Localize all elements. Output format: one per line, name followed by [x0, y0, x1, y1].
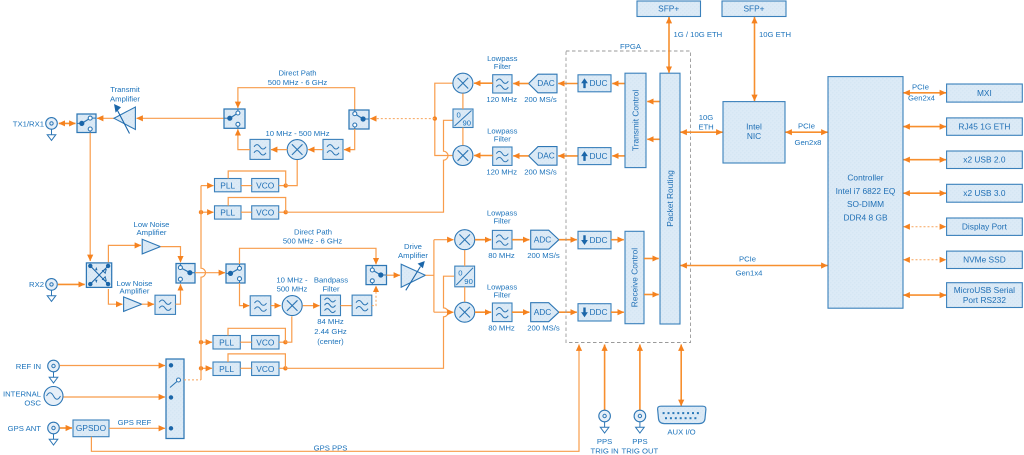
- Intel NIC block: [723, 102, 785, 163]
- wire Controller to NVMe SSD (dotted bidirectional): [904, 259, 947, 261]
- svg-text:DDC: DDC: [589, 235, 607, 245]
- wire Controller to MXI (bidirectional): [904, 92, 947, 94]
- wire REF IN to reference mux: [60, 365, 165, 367]
- wire SR1 to SR2: [195, 272, 225, 274]
- feedback loop D: [228, 354, 285, 368]
- wire ref to PLL D with junction: [199, 366, 212, 370]
- svg-text:RX2: RX2: [29, 280, 44, 289]
- svg-text:DriveAmplifier: DriveAmplifier: [398, 242, 428, 260]
- Transmit Control block: [625, 73, 646, 167]
- svg-text:LowpassFilter: LowpassFilter: [487, 127, 517, 144]
- wire DAC2 to F2: [513, 155, 528, 157]
- wire Packet Routing to Transmit Control lower: [647, 138, 660, 140]
- svg-text:x2 USB 3.0: x2 USB 3.0: [963, 188, 1006, 198]
- wire F1 to mixer TX I: [474, 82, 493, 84]
- wire PPS TRIG OUT to FPGA: [639, 345, 641, 411]
- PLL/VCO pair B: [215, 206, 279, 219]
- wire DUC1 to DAC1: [558, 83, 578, 85]
- wire VCO A to TX low band mixer LO: [286, 160, 298, 186]
- svg-text:Packet Routing: Packet Routing: [665, 170, 675, 227]
- wire Controller to Display Port (dotted bidirectional): [904, 226, 947, 228]
- port PPS TRIG IN connector: [599, 410, 611, 422]
- wire matrix to LNA1: [108, 245, 141, 262]
- svg-text:ADC: ADC: [534, 307, 552, 317]
- mixer TX low band: [287, 140, 307, 160]
- switch SR2 (RX band select): [226, 264, 245, 283]
- wire S3 to filter F3: [344, 129, 355, 150]
- svg-text:GPS PPS: GPS PPS: [314, 443, 348, 452]
- FPGA dashed boundary: [566, 51, 691, 343]
- TX IF combiner vertical with junction: [433, 83, 453, 155]
- NVMe SSD block: [947, 251, 1023, 268]
- GPSDO block: [73, 420, 109, 437]
- port PPS TRIG OUT connector: [634, 410, 646, 422]
- mixer TX Q: [453, 146, 473, 166]
- port REF IN connector: [16, 360, 60, 372]
- DUC 2: [578, 148, 611, 165]
- x2 USB 2.0 block: [947, 151, 1023, 169]
- svg-text:MicroUSB SerialPort RS232: MicroUSB SerialPort RS232: [954, 285, 1015, 305]
- svg-text:REF IN: REF IN: [16, 362, 41, 371]
- wire VCO A output with junction: [279, 183, 288, 187]
- svg-text:ADC: ADC: [534, 234, 552, 244]
- filter F7 (RX low band left): [250, 296, 271, 316]
- svg-text:PLL: PLL: [220, 180, 235, 190]
- svg-text:PLL: PLL: [220, 208, 235, 218]
- mixer RX Q: [455, 302, 475, 322]
- RX 0/90 phase splitter: [455, 266, 475, 287]
- wire SFP+1 to Packet Routing (bidirectional): [668, 17, 670, 73]
- svg-text:PLL: PLL: [219, 364, 234, 374]
- wire F8 to S5 bottom (dashed): [372, 286, 376, 306]
- wire bandpass filter to F8: [341, 305, 353, 307]
- wire TX 0/90 to mixer Q LO: [462, 128, 464, 146]
- port GPS ANT connector: [8, 422, 60, 434]
- svg-text:Receive Control: Receive Control: [630, 248, 640, 308]
- drive amplifier: [401, 261, 425, 290]
- DDC 2: [578, 304, 611, 321]
- feedback loop B: [228, 198, 286, 213]
- svg-text:PLL: PLL: [219, 337, 234, 347]
- svg-text:VCO: VCO: [256, 208, 275, 218]
- svg-text:GPS ANT: GPS ANT: [8, 424, 42, 433]
- feedback loop C: [228, 328, 285, 342]
- filter F9 (RX2 path): [155, 295, 176, 314]
- svg-text:10GETH: 10GETH: [698, 113, 713, 131]
- svg-text:Transmit Control: Transmit Control: [631, 90, 641, 152]
- svg-text:Low NoiseAmplifier: Low NoiseAmplifier: [134, 220, 170, 237]
- switch S3 (TX IF/direct select): [349, 110, 369, 129]
- svg-text:VCO: VCO: [256, 364, 275, 374]
- svg-text:LowpassFilter: LowpassFilter: [487, 209, 517, 226]
- svg-text:Low NoiseAmplifier: Low NoiseAmplifier: [117, 279, 153, 296]
- wire PPS TRIG IN to FPGA: [604, 345, 606, 411]
- svg-text:SFP+: SFP+: [658, 4, 679, 14]
- wire PLL A to VCO A: [241, 185, 252, 187]
- wire Receive Control to Packet Routing lower: [644, 294, 659, 296]
- wire S2 to transmit amplifier input: [137, 117, 225, 119]
- wire mixer RX I to F5: [475, 239, 491, 241]
- svg-text:DUC: DUC: [589, 151, 607, 161]
- svg-text:IntelNIC: IntelNIC: [746, 122, 762, 142]
- svg-text:TransmitAmplifier: TransmitAmplifier: [110, 85, 141, 104]
- svg-text:VCO: VCO: [256, 180, 275, 190]
- svg-text:PCIe: PCIe: [739, 255, 756, 264]
- svg-text:Display Port: Display Port: [962, 222, 1008, 232]
- wire AUX I/O to FPGA (bidirectional): [680, 345, 682, 407]
- wire matrix to LNA2: [108, 289, 122, 304]
- GPS PPS wire to FPGA: [91, 345, 579, 452]
- svg-text:200 MS/s: 200 MS/s: [527, 324, 560, 333]
- filter F6 (RX Q lowpass): [492, 303, 512, 322]
- svg-text:200 MS/s: 200 MS/s: [524, 168, 557, 177]
- filter F1 (TX I lowpass): [493, 75, 512, 93]
- switch S5 (RX IF/direct select): [366, 266, 387, 285]
- wire LNA2 to filter F9: [142, 303, 154, 305]
- Controller block: [828, 77, 903, 309]
- wire RX2 to matrix: [58, 283, 85, 285]
- svg-text:80 MHz: 80 MHz: [488, 251, 515, 260]
- wire splitter to mixer RX I: [434, 239, 454, 241]
- filter F2 (TX Q lowpass): [493, 147, 512, 165]
- PLL/VCO pair A: [215, 179, 279, 192]
- TX direct path wire S3 to S2: [238, 88, 355, 110]
- wire VCO C output with junction: [279, 340, 288, 344]
- DAC 1: [529, 74, 557, 93]
- PLL/VCO pair C: [213, 336, 279, 350]
- svg-text:LowpassFilter: LowpassFilter: [487, 54, 517, 71]
- wire S5 to drive amplifier: [387, 274, 401, 276]
- ground below REF IN: [49, 372, 58, 383]
- ground below PPS TRIG OUT: [636, 422, 645, 433]
- wire F5 to ADC1: [512, 239, 529, 241]
- switch SR1 (RX path select): [176, 264, 195, 284]
- svg-text:Direct Path500 MHz - 6 GHz: Direct Path500 MHz - 6 GHz: [268, 69, 328, 87]
- MXI block: [947, 84, 1023, 102]
- wire amplifier output to S1: [97, 117, 115, 119]
- svg-text:PCIe: PCIe: [798, 122, 815, 131]
- wire F6 to ADC2: [512, 311, 529, 313]
- PCIe Gen2x8 label: [795, 122, 822, 147]
- svg-text:VCO: VCO: [256, 337, 275, 347]
- port TX1/RX1 connector: [13, 118, 58, 130]
- svg-text:PPSTRIG IN: PPSTRIG IN: [591, 437, 619, 455]
- ground below PPS TRIG IN: [600, 422, 609, 433]
- svg-text:0: 0: [457, 111, 461, 120]
- wire S1 to RX matrix: [89, 133, 91, 261]
- svg-text:120 MHz: 120 MHz: [486, 95, 517, 104]
- wire Packet Routing to Transmit Control upper: [647, 101, 660, 103]
- switch S2 (TX band select): [224, 109, 245, 128]
- wire Packet Routing to Intel NIC (bidirectional): [681, 131, 723, 133]
- svg-text:10 MHz -500 MHz: 10 MHz -500 MHz: [276, 275, 308, 293]
- reference mux output (dashed): [184, 379, 201, 381]
- wire Packet Routing to Controller PCIe Gen1x4 (bidirectional): [681, 265, 828, 267]
- svg-text:200 MS/s: 200 MS/s: [524, 95, 557, 104]
- svg-text:TX1/RX1: TX1/RX1: [13, 119, 44, 128]
- TX IF wire to S3 (dashed): [370, 118, 435, 120]
- wire mixer RX Q to F6: [475, 311, 491, 313]
- wire RX 0/90 to mixer Q LO: [464, 287, 466, 302]
- wire LNA1 to switch SR1: [160, 247, 180, 263]
- ADC 2: [531, 303, 559, 322]
- Packet Routing block: [660, 73, 680, 324]
- svg-text:DAC: DAC: [537, 151, 555, 161]
- mixer TX I: [453, 73, 473, 93]
- svg-text:LowpassFilter: LowpassFilter: [487, 283, 517, 300]
- wire F4 to S2 bottom: [238, 129, 250, 149]
- DUC 1: [578, 75, 611, 92]
- wire F3 to TX low band mixer: [308, 149, 323, 151]
- wire PLL D to VCO D: [240, 367, 251, 369]
- SFP+ module 2: [722, 1, 786, 17]
- RX direct path wire SR2 to S5: [240, 248, 377, 264]
- svg-text:MXI: MXI: [977, 88, 992, 98]
- internal oscillator: [3, 387, 63, 408]
- wire Transmit Control to DUC1: [612, 83, 625, 85]
- port RX2 connector: [29, 279, 57, 291]
- ADC 1: [531, 230, 559, 249]
- bandpass filter: [321, 295, 341, 316]
- filter F4 (TX low band left): [250, 139, 270, 159]
- wire VCO D output with junction: [279, 366, 288, 370]
- svg-text:0: 0: [458, 269, 462, 278]
- wire F7 to RX low band mixer: [271, 305, 281, 307]
- wire ref to PLL C with junction: [199, 340, 212, 344]
- PCIe Gen1x4 label: [736, 255, 764, 278]
- svg-text:80 MHz: 80 MHz: [488, 324, 515, 333]
- svg-text:BandpassFilter: BandpassFilter: [314, 275, 348, 293]
- mixer RX I: [455, 230, 475, 250]
- wire VCO B to TX 0/90 splitter (with hop): [286, 120, 453, 212]
- RJ45 1G ETH block: [947, 118, 1023, 135]
- svg-text:NVMe SSD: NVMe SSD: [963, 255, 1006, 265]
- AUX I/O connector: [658, 406, 706, 423]
- Display Port block: [947, 218, 1023, 235]
- x2 USB 3.0 block: [947, 184, 1023, 202]
- svg-text:Gen2x4: Gen2x4: [908, 93, 936, 102]
- wire ADC2 to DDC2: [559, 311, 577, 313]
- svg-text:84 MHz2.44 GHz(center): 84 MHz2.44 GHz(center): [314, 317, 347, 346]
- reference distribution line (with hop over RX wire): [201, 186, 206, 380]
- RX splitter vertical: [425, 240, 434, 313]
- DAC 2: [529, 147, 557, 166]
- wire TX1/RX1 to switch S1 (bidirectional): [59, 122, 76, 124]
- wire Controller to USB 3.0 (bidirectional): [904, 192, 947, 194]
- svg-text:RJ45 1G ETH: RJ45 1G ETH: [958, 121, 1010, 131]
- wire VCO C to RX low band mixer LO: [285, 316, 291, 342]
- filter F8 (RX low band right): [352, 295, 372, 316]
- MicroUSB Serial Port RS232 block: [947, 283, 1023, 308]
- svg-text:DAC: DAC: [537, 78, 555, 88]
- wire DAC1 to F1: [513, 83, 528, 85]
- filter F3 (TX low band right): [323, 139, 343, 159]
- svg-text:Gen2x8: Gen2x8: [795, 138, 822, 147]
- ground below GPS ANT: [49, 434, 58, 445]
- wire DDC1 to Receive Control: [611, 239, 624, 241]
- svg-text:FPGA: FPGA: [620, 42, 642, 51]
- wire PLL C to VCO C: [240, 341, 251, 343]
- svg-text:DUC: DUC: [589, 78, 607, 88]
- wire PLL B to VCO B: [241, 211, 252, 213]
- wire VCO B output with junction: [279, 210, 288, 214]
- wire ADC1 to DDC1: [559, 239, 577, 241]
- DDC 1: [578, 231, 611, 249]
- svg-text:x2 USB 2.0: x2 USB 2.0: [963, 155, 1006, 165]
- wire DDC2 to Receive Control: [611, 311, 624, 313]
- wire Transmit Control to DUC2: [612, 155, 625, 157]
- wire mixer to bandpass filter: [303, 305, 320, 307]
- svg-text:90: 90: [464, 277, 473, 286]
- wire Intel NIC to Controller (bidirectional): [786, 131, 828, 133]
- transmit amplifier: [114, 104, 135, 134]
- RX transfer switch matrix: [86, 263, 111, 288]
- svg-text:AUX I/O: AUX I/O: [667, 428, 695, 437]
- wire DUC2 to DAC2: [558, 155, 578, 157]
- wire SR2 to filter F7: [240, 283, 250, 306]
- TX 0/90 phase splitter: [453, 109, 473, 128]
- svg-text:SFP+: SFP+: [743, 4, 764, 14]
- PLL/VCO pair D: [213, 362, 279, 376]
- svg-text:120 MHz: 120 MHz: [486, 168, 517, 177]
- wire Controller to USB 2.0 (bidirectional): [904, 159, 947, 161]
- svg-text:10 MHz - 500 MHz: 10 MHz - 500 MHz: [265, 129, 329, 138]
- wire ref to PLL B with junction: [199, 210, 214, 214]
- ground below RX2: [47, 290, 56, 301]
- feedback loop A: [228, 171, 286, 186]
- SFP+ module 1: [637, 1, 701, 17]
- svg-text:10G ETH: 10G ETH: [759, 30, 791, 39]
- wire TX 0/90 to mixer I LO: [462, 93, 464, 109]
- switch S1 (TRX front switch): [77, 114, 96, 133]
- low noise amplifier LNA1: [142, 239, 160, 254]
- mixer RX low band: [282, 296, 302, 316]
- svg-text:Direct Path500 MHz - 6 GHz: Direct Path500 MHz - 6 GHz: [283, 227, 343, 245]
- wire F9 to switch SR1 bottom: [176, 284, 181, 304]
- reference mux switch: [166, 359, 184, 439]
- svg-text:PCIe: PCIe: [912, 83, 929, 92]
- wire splitter to mixer RX Q: [434, 311, 454, 313]
- wire RX 0/90 to mixer I LO: [464, 250, 466, 266]
- svg-text:1G / 10G ETH: 1G / 10G ETH: [674, 30, 723, 39]
- ground below TX1/RX1: [47, 129, 56, 140]
- svg-text:GPS REF: GPS REF: [118, 418, 152, 427]
- svg-text:GPSDO: GPSDO: [76, 423, 107, 433]
- filter F5 (RX I lowpass): [492, 230, 512, 249]
- svg-text:200 MS/s: 200 MS/s: [527, 251, 560, 260]
- svg-text:90: 90: [463, 119, 472, 128]
- wire Controller to MicroUSB (bidirectional): [904, 294, 947, 296]
- wire GPSDO to reference mux: [109, 427, 165, 429]
- wire internal osc to reference mux: [64, 396, 166, 398]
- svg-text:Gen1x4: Gen1x4: [736, 268, 764, 277]
- wire GPS ANT to GPSDO: [60, 427, 72, 429]
- wire ref to PLL A: [201, 185, 214, 187]
- wire SFP+2 to Intel NIC (bidirectional): [754, 17, 756, 101]
- wire F2 to mixer TX Q: [474, 155, 493, 157]
- wire Receive Control to Packet Routing upper: [644, 258, 659, 260]
- wire VCO D to RX 0/90 splitter (with hop): [285, 276, 454, 368]
- wire Controller to RJ45 (bidirectional): [904, 126, 947, 128]
- PCIe Gen2x4 label: [908, 83, 936, 103]
- svg-text:DDC: DDC: [589, 307, 607, 317]
- Receive Control block: [625, 231, 644, 323]
- svg-text:PPSTRIG OUT: PPSTRIG OUT: [622, 437, 659, 455]
- svg-text:INTERNALOSC: INTERNALOSC: [3, 390, 42, 408]
- wire mixer to filter F4: [271, 149, 287, 151]
- low noise amplifier LNA2: [124, 297, 142, 312]
